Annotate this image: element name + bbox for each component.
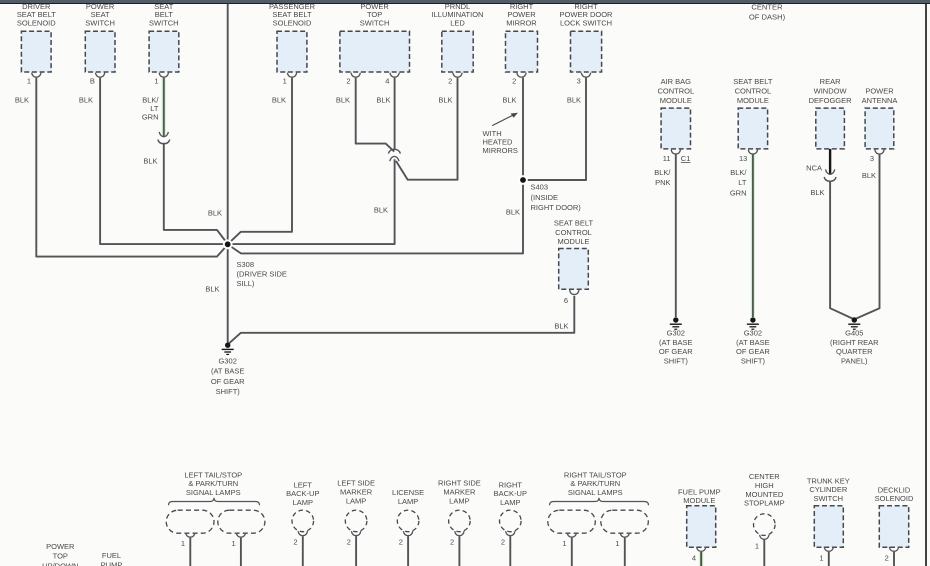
wire label BLK (left of S308 vertical) xyxy=(208,209,222,218)
label: driver seat belt solenoid xyxy=(17,2,57,28)
svg-text:SILL): SILL) xyxy=(237,279,255,288)
wire label BLK/LT GRN (right) xyxy=(730,168,748,197)
wire label BLK (below inline connector) xyxy=(143,157,157,166)
svg-text:MODULE: MODULE xyxy=(683,496,715,505)
label: power top switch xyxy=(360,2,390,28)
svg-text:STOPLAMP: STOPLAMP xyxy=(744,499,785,508)
inline connector on power top wire xyxy=(388,149,400,161)
wire: right side marker lamp down xyxy=(458,536,460,566)
svg-text:RIGHT DOOR): RIGHT DOOR) xyxy=(531,203,582,212)
label: rear window defogger xyxy=(809,77,853,105)
pin 3 xyxy=(870,154,874,163)
svg-text:RIGHT TAIL/STOP: RIGHT TAIL/STOP xyxy=(564,470,627,479)
svg-text:MODULE: MODULE xyxy=(660,96,692,105)
svg-text:LEFT TAIL/STOP: LEFT TAIL/STOP xyxy=(184,470,242,479)
svg-text:BLK/: BLK/ xyxy=(654,168,671,177)
svg-text:(DRIVER SIDE: (DRIVER SIDE xyxy=(237,270,287,279)
svg-text:SHIFT): SHIFT) xyxy=(741,356,766,365)
label: right side marker lamp xyxy=(438,479,481,506)
svg-text:LAMP: LAMP xyxy=(398,497,418,506)
svg-text:G302: G302 xyxy=(219,357,237,366)
pin 2 xyxy=(399,538,403,547)
component: power antenna xyxy=(865,108,894,149)
svg-text:2: 2 xyxy=(512,77,516,86)
pin connector power antenna xyxy=(875,150,884,155)
wire: right back-up lamp down xyxy=(509,536,511,566)
svg-text:2: 2 xyxy=(501,538,505,547)
component: seat belt control module (mid) xyxy=(559,249,589,290)
wire label BLK (module ground run) xyxy=(554,322,568,331)
lamp: left back-up lamp xyxy=(292,510,314,532)
svg-text:LT: LT xyxy=(738,178,747,187)
wire: right power door lock switch to S403 xyxy=(523,78,586,180)
svg-text:1: 1 xyxy=(819,553,823,562)
pin 1 xyxy=(615,539,619,548)
lamp: left tail/stop signal lamp 2 xyxy=(218,510,265,533)
svg-text:BLK: BLK xyxy=(272,96,286,105)
svg-text:WINDOW: WINDOW xyxy=(814,87,848,96)
label: left side marker lamp xyxy=(337,479,375,506)
pin connector at x=701.2 xyxy=(697,547,706,552)
svg-text:BLK: BLK xyxy=(502,96,516,105)
ground G405 (right rear quarter panel) xyxy=(848,317,860,329)
pin 4 xyxy=(385,77,389,86)
component: fuel pump module xyxy=(687,506,716,548)
wire: left signal lamp 1 down xyxy=(189,538,191,566)
wire label BLK (power top pin2) xyxy=(336,96,350,105)
svg-text:1: 1 xyxy=(283,77,287,86)
svg-text:FUEL: FUEL xyxy=(102,551,121,560)
pin connector at x=292.0 xyxy=(287,73,296,78)
label: decklid solenoid xyxy=(875,485,914,503)
pin connector at x=100.1 xyxy=(95,73,104,78)
lamp: right back-up lamp xyxy=(500,510,522,532)
svg-text:& PARK/TURN: & PARK/TURN xyxy=(570,479,620,488)
pin 2 xyxy=(346,77,350,86)
wire label NCA xyxy=(806,164,822,173)
inline connector on defogger wire xyxy=(824,169,836,181)
svg-text:2: 2 xyxy=(346,77,350,86)
label: right back-up lamp xyxy=(494,480,527,507)
wire: right signal lamp 1 down xyxy=(571,538,573,566)
wire label BLK (S403 down-wire) xyxy=(506,208,520,217)
label: fuel pump module xyxy=(678,487,721,505)
pin 11 xyxy=(663,154,671,163)
svg-text:2: 2 xyxy=(347,538,351,547)
svg-text:2: 2 xyxy=(399,538,403,547)
wire: seat belt switch BLK/LT GRN segment xyxy=(162,78,166,137)
svg-text:FUEL PUMP: FUEL PUMP xyxy=(678,487,721,496)
svg-text:2: 2 xyxy=(450,538,454,547)
label: right power door lock switch xyxy=(560,2,614,28)
wire: passenger seat belt solenoid to S308 xyxy=(228,78,292,245)
svg-text:BACK-UP: BACK-UP xyxy=(494,489,527,498)
svg-text:LICENSE: LICENSE xyxy=(392,488,424,497)
pin connector at x=764.3 xyxy=(760,535,769,540)
pin connector at x=408.1 xyxy=(403,531,412,536)
pin 1 xyxy=(283,77,287,86)
pin connector at x=459.4 xyxy=(455,531,464,536)
svg-text:2: 2 xyxy=(293,538,297,547)
label: passenger seat belt solenoid xyxy=(269,2,316,28)
svg-text:RIGHT SIDE: RIGHT SIDE xyxy=(438,479,481,488)
svg-text:UP/DOWN: UP/DOWN xyxy=(42,561,78,566)
pin 2 xyxy=(448,77,452,86)
svg-text:SOLENOID: SOLENOID xyxy=(273,19,312,28)
svg-text:(AT BASE: (AT BASE xyxy=(659,338,692,347)
svg-text:& PARK/TURN: & PARK/TURN xyxy=(188,479,238,488)
svg-text:POWER: POWER xyxy=(865,87,894,96)
wire: from top of page to splice S308 xyxy=(227,4,229,241)
inline connector on seat belt switch wire xyxy=(158,132,170,144)
pin 2 xyxy=(450,538,454,547)
splice S308 xyxy=(223,239,233,249)
wire: power seat switch to S308 xyxy=(100,78,225,245)
note arrow: with heated mirrors xyxy=(492,113,518,126)
svg-text:SOLENOID: SOLENOID xyxy=(17,19,56,28)
svg-text:BLK: BLK xyxy=(79,96,93,105)
svg-text:S403: S403 xyxy=(531,183,549,192)
pin 1 xyxy=(755,541,759,550)
svg-text:POWER: POWER xyxy=(46,542,75,551)
wire: left signal lamp 2 down xyxy=(240,538,242,566)
wire: seat belt control module pin6 to G302 xyxy=(228,296,575,345)
pin 2 xyxy=(347,538,351,547)
svg-text:TOP: TOP xyxy=(53,552,68,561)
svg-text:LED: LED xyxy=(450,19,465,28)
svg-text:PNK: PNK xyxy=(655,178,670,187)
svg-text:MOUNTED: MOUNTED xyxy=(745,490,783,499)
pin connector at x=240.9 xyxy=(236,533,245,538)
svg-text:G405: G405 xyxy=(845,329,863,338)
svg-text:SHIFT): SHIFT) xyxy=(216,387,241,396)
svg-text:G302: G302 xyxy=(744,329,762,338)
svg-text:DEFOGGER: DEFOGGER xyxy=(809,96,853,105)
svg-text:CONTROL: CONTROL xyxy=(555,228,592,237)
label: seat belt control module (mid) xyxy=(554,218,594,246)
lamp: left tail/stop signal lamp 1 xyxy=(166,510,214,533)
svg-text:2: 2 xyxy=(448,77,452,86)
pin 2 xyxy=(293,538,297,547)
pin connector at x=190.3 xyxy=(186,533,195,538)
svg-text:11: 11 xyxy=(663,154,671,163)
wire: driver seat belt solenoid to S308 xyxy=(36,78,227,257)
wire: power top switch pin4 upper segment xyxy=(394,78,396,150)
svg-text:BLK: BLK xyxy=(862,171,876,180)
brace over left signal lamps xyxy=(169,498,260,506)
wire label BLK/PNK xyxy=(654,168,671,187)
svg-text:1: 1 xyxy=(615,539,619,548)
component: power seat switch xyxy=(85,31,115,72)
svg-text:4: 4 xyxy=(385,77,389,86)
label: air bag control module xyxy=(657,77,694,105)
pin connector at x=510.3 xyxy=(506,531,515,536)
svg-text:BLK: BLK xyxy=(15,96,29,105)
svg-text:DECKLID: DECKLID xyxy=(878,485,911,494)
svg-text:REAR: REAR xyxy=(820,77,841,86)
wire: decklid solenoid down xyxy=(893,552,895,566)
svg-text:TRUNK KEY: TRUNK KEY xyxy=(807,476,850,485)
component: right power door lock switch xyxy=(571,31,602,72)
svg-text:(AT BASE: (AT BASE xyxy=(736,338,769,347)
svg-text:GRN: GRN xyxy=(730,188,747,197)
pin connector seat belt control module pin 6 xyxy=(570,290,579,295)
component: rear window defogger xyxy=(816,108,845,149)
svg-text:13: 13 xyxy=(739,154,747,163)
component: trunk key cylinder switch xyxy=(814,506,843,548)
brace over right signal lamps xyxy=(550,498,649,506)
svg-text:BLK: BLK xyxy=(143,157,157,166)
svg-text:MODULE: MODULE xyxy=(737,96,769,105)
ground G302 (base of gear shift) xyxy=(222,343,234,355)
svg-text:BLK: BLK xyxy=(810,188,824,197)
svg-text:BLK: BLK xyxy=(205,285,219,294)
ground G302 (seat belt module) xyxy=(747,317,759,329)
lamp: right tail/stop signal lamp 1 xyxy=(548,510,596,533)
wire: seat belt module to G302 (LT GRN) xyxy=(751,155,755,318)
lamp: right side marker lamp xyxy=(449,510,471,532)
top window edge bar xyxy=(0,0,930,3)
svg-text:LEFT: LEFT xyxy=(294,480,313,489)
pin connector at x=828.8 xyxy=(824,547,833,552)
pin connector at x=394.6 xyxy=(390,73,399,78)
svg-text:LOCK SWITCH: LOCK SWITCH xyxy=(560,19,612,28)
svg-text:BACK-UP: BACK-UP xyxy=(286,489,319,498)
svg-text:BLK: BLK xyxy=(438,96,452,105)
label: G405 xyxy=(830,329,879,366)
svg-text:SIGNAL LAMPS: SIGNAL LAMPS xyxy=(186,488,241,497)
svg-text:PUMP: PUMP xyxy=(101,561,123,566)
component: air bag control module xyxy=(661,108,690,149)
svg-text:MIRRORS: MIRRORS xyxy=(483,146,518,155)
svg-text:(INSIDE: (INSIDE xyxy=(531,193,559,202)
pin 4 xyxy=(692,553,696,562)
pin 1 xyxy=(562,539,566,548)
pin 3 xyxy=(577,77,581,86)
label: G302 (air bag) xyxy=(659,329,693,366)
svg-text:(RIGHT REAR: (RIGHT REAR xyxy=(830,338,879,347)
wire: connector down to S308 splice xyxy=(231,159,395,244)
svg-text:1: 1 xyxy=(755,541,759,550)
svg-text:SOLENOID: SOLENOID xyxy=(875,494,914,503)
wire label BLK (connector down-wire) xyxy=(374,206,388,215)
label: license lamp xyxy=(392,488,424,506)
svg-text:BLK: BLK xyxy=(554,322,568,331)
label: power seat switch xyxy=(85,2,115,28)
wire: air bag module to G302 xyxy=(675,155,677,318)
label: power top up/down (partial) xyxy=(42,542,78,566)
svg-text:ANTENNA: ANTENNA xyxy=(862,96,898,105)
wire label BLK (S308 to ground) xyxy=(205,285,219,294)
page right border xyxy=(925,4,927,566)
pin connector at x=571.8 xyxy=(567,533,576,538)
label: power antenna xyxy=(862,87,898,106)
pin connector at x=586.0 xyxy=(581,73,590,78)
pin connector air bag module xyxy=(671,150,680,155)
svg-text:BLK: BLK xyxy=(208,209,222,218)
svg-text:LAMP: LAMP xyxy=(449,496,469,505)
pin 1 xyxy=(232,539,236,548)
wire: right signal lamp 2 down xyxy=(624,538,626,566)
label: trunk key cylinder switch xyxy=(807,476,850,503)
svg-text:OF GEAR: OF GEAR xyxy=(211,377,245,386)
component: decklid solenoid xyxy=(879,506,908,548)
svg-text:SWITCH: SWITCH xyxy=(149,19,179,28)
svg-text:BLK: BLK xyxy=(567,96,581,105)
svg-text:BLK: BLK xyxy=(376,96,390,105)
wire: trunk key cylinder switch down xyxy=(828,552,830,566)
pin connector at x=356.1 xyxy=(351,531,360,536)
label: fuel pump (partial) xyxy=(101,551,123,566)
svg-text:3: 3 xyxy=(870,154,874,163)
label: center of dash xyxy=(749,2,786,21)
pin B xyxy=(90,77,95,86)
svg-text:(AT BASE: (AT BASE xyxy=(211,367,244,376)
label: splice S403 (inside right door) xyxy=(531,183,582,213)
svg-text:1: 1 xyxy=(27,77,31,86)
component: passenger seat belt solenoid xyxy=(277,31,307,72)
wire: S308 splice down to ground G302 xyxy=(227,244,229,342)
pin connector at x=521.5 xyxy=(517,73,526,78)
pin 13 xyxy=(739,154,747,163)
component: power top switch xyxy=(340,31,410,72)
svg-text:BLK: BLK xyxy=(374,206,388,215)
svg-text:LEFT SIDE: LEFT SIDE xyxy=(337,479,375,488)
pin 2 xyxy=(501,538,505,547)
svg-text:CONTROL: CONTROL xyxy=(735,87,772,96)
pin connector at x=355.7 xyxy=(351,73,360,78)
wire: left back-up lamp down xyxy=(302,536,304,566)
label: G302 (at base of gear shift) xyxy=(211,357,245,397)
component: seat belt switch xyxy=(149,31,179,72)
svg-text:LAMP: LAMP xyxy=(293,498,313,507)
svg-text:1: 1 xyxy=(562,539,566,548)
pin connector at x=457.5 xyxy=(453,73,462,78)
wire: power antenna to G405 xyxy=(854,155,879,320)
wire label BLK (antenna) xyxy=(862,171,876,180)
wire label BLK (driver solenoid) xyxy=(15,96,29,105)
label: splice S308 (driver side sill) xyxy=(237,260,287,288)
svg-text:CONTROL: CONTROL xyxy=(657,87,694,96)
wire: defogger to G405 xyxy=(830,181,854,320)
svg-text:MIRROR: MIRROR xyxy=(506,19,537,28)
svg-text:SWITCH: SWITCH xyxy=(360,19,390,28)
svg-text:C1: C1 xyxy=(681,154,691,163)
pin connector at x=894.0 xyxy=(889,547,898,552)
label: seat belt switch xyxy=(149,2,179,28)
svg-text:MARKER: MARKER xyxy=(340,488,373,497)
pin connector seat belt module xyxy=(748,150,757,155)
component: seat belt control module (right) xyxy=(738,108,767,149)
svg-text:OF GEAR: OF GEAR xyxy=(659,347,693,356)
wire label BLK (passenger solenoid) xyxy=(272,96,286,105)
svg-text:S308: S308 xyxy=(237,260,255,269)
svg-text:SWITCH: SWITCH xyxy=(85,19,115,28)
component: driver seat belt solenoid xyxy=(21,31,51,72)
svg-text:NCA: NCA xyxy=(806,164,822,173)
svg-text:SEAT BELT: SEAT BELT xyxy=(733,77,773,86)
svg-text:SIGNAL LAMPS: SIGNAL LAMPS xyxy=(568,488,623,497)
pin 1 xyxy=(181,539,185,548)
svg-text:MARKER: MARKER xyxy=(443,488,476,497)
note: with heated mirrors xyxy=(483,129,518,155)
label: left back-up lamp xyxy=(286,480,319,507)
svg-text:1: 1 xyxy=(232,539,236,548)
svg-text:RIGHT: RIGHT xyxy=(499,480,523,489)
label: G302 (seat belt module) xyxy=(736,329,770,366)
svg-text:CENTER: CENTER xyxy=(749,472,780,481)
label: right tail/stop & park/turn signal lamps xyxy=(564,470,627,497)
svg-text:BLK: BLK xyxy=(506,208,520,217)
svg-text:1: 1 xyxy=(181,539,185,548)
lamp: left side marker lamp xyxy=(345,510,367,532)
svg-text:G302: G302 xyxy=(667,329,685,338)
wire: fuel pump module down (DK GRN) xyxy=(699,552,703,566)
wire label BLK (mirror) xyxy=(502,96,516,105)
svg-text:LAMP: LAMP xyxy=(500,498,520,507)
svg-text:QUARTER: QUARTER xyxy=(836,347,873,356)
label: right power mirror xyxy=(506,2,537,28)
pin connector at x=302.8 xyxy=(298,531,307,536)
pin 1 xyxy=(27,77,31,86)
component: prndl illumination led xyxy=(442,31,473,72)
wire label BLK/LT GRN (seat belt switch) xyxy=(142,96,160,122)
wire: right power mirror through S403 to S308 xyxy=(228,78,523,254)
wire: license lamp down xyxy=(407,536,409,566)
wire label BLK (power top pin4) xyxy=(376,96,390,105)
svg-text:OF GEAR: OF GEAR xyxy=(736,347,770,356)
pin 2 xyxy=(885,553,889,562)
svg-text:4: 4 xyxy=(692,553,696,562)
splice S403 xyxy=(518,175,528,185)
component: right power mirror xyxy=(506,31,538,72)
wire: prndl illumination led to connector xyxy=(396,78,458,180)
svg-text:SEAT BELT: SEAT BELT xyxy=(554,218,594,227)
wire: seat belt switch to S308 xyxy=(164,143,228,244)
svg-text:SHIFT): SHIFT) xyxy=(664,356,689,365)
pin 1 xyxy=(154,77,158,86)
svg-text:AIR BAG: AIR BAG xyxy=(661,77,692,86)
label: left tail/stop & park/turn signal lamps xyxy=(184,470,242,497)
label: prndl illumination led xyxy=(432,2,484,28)
svg-text:2: 2 xyxy=(885,553,889,562)
svg-text:HIGH: HIGH xyxy=(755,481,774,490)
svg-text:B: B xyxy=(90,77,95,86)
wire: center stoplamp down xyxy=(763,540,765,566)
svg-text:BLK/: BLK/ xyxy=(730,168,747,177)
ground G302 (air bag) xyxy=(670,317,682,329)
wire: power top switch pin2 to connector xyxy=(356,78,395,152)
pin connector at x=36.3 xyxy=(32,73,41,78)
svg-text:CENTER: CENTER xyxy=(751,2,783,11)
wire label BLK (defogger) xyxy=(810,188,824,197)
svg-text:1: 1 xyxy=(154,77,158,86)
lamp: center high mounted stoplamp xyxy=(754,514,776,536)
pin connector at x=624.8 xyxy=(620,533,629,538)
label: center high mounted stoplamp xyxy=(744,472,785,508)
svg-text:OF DASH): OF DASH) xyxy=(749,13,786,22)
svg-text:CYLINDER: CYLINDER xyxy=(809,485,848,494)
lamp: license lamp xyxy=(397,510,419,532)
wire: defogger black segment xyxy=(829,149,831,175)
svg-text:LAMP: LAMP xyxy=(346,496,366,505)
pin 2 xyxy=(512,77,516,86)
label: seat belt control module (right) xyxy=(733,77,773,105)
svg-text:GRN: GRN xyxy=(142,112,159,121)
svg-text:6: 6 xyxy=(564,296,568,305)
svg-text:PANEL): PANEL) xyxy=(841,356,868,365)
svg-text:BLK: BLK xyxy=(336,96,350,105)
